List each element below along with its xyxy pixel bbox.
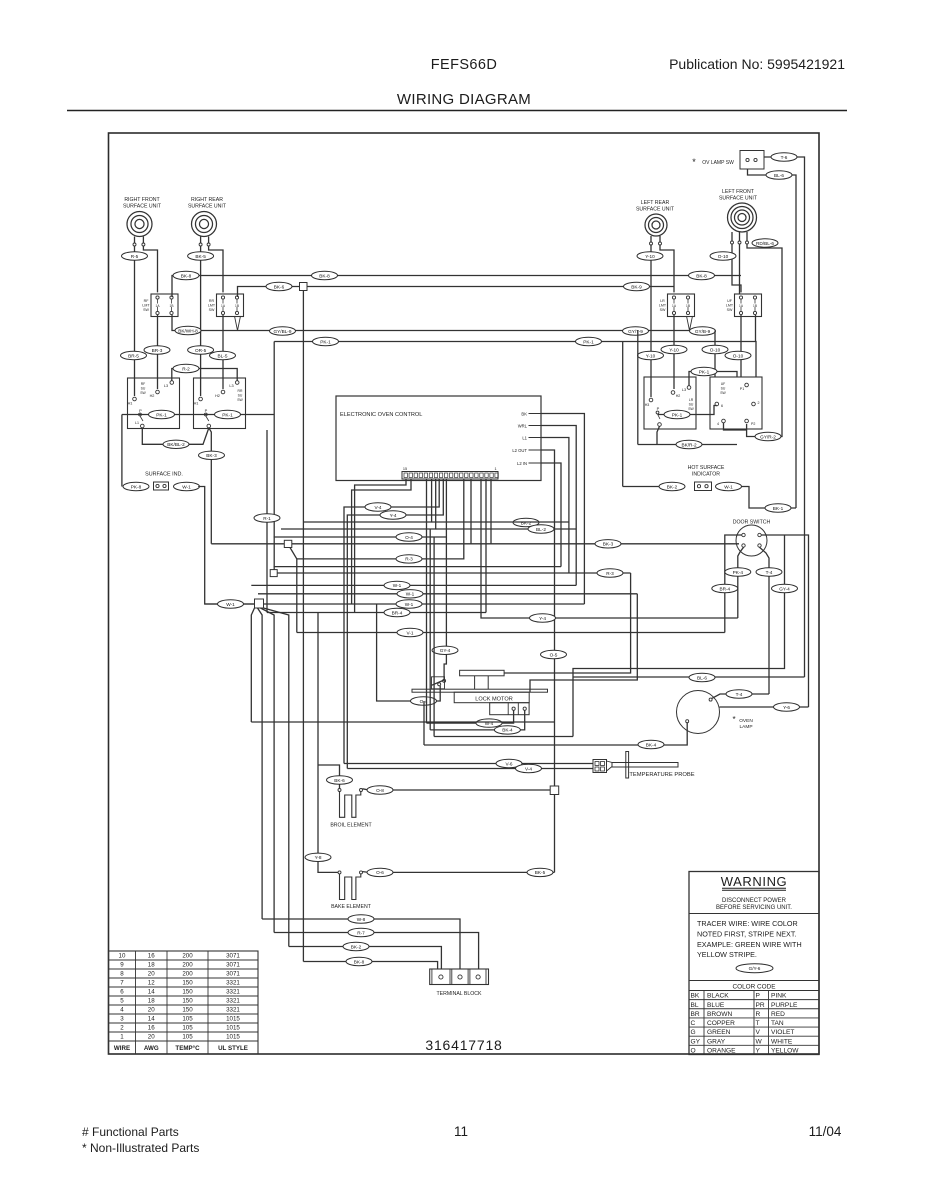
svg-text:VIOLET: VIOLET bbox=[771, 1029, 794, 1036]
svg-text:RR: RR bbox=[238, 389, 243, 393]
svg-text:R: R bbox=[756, 1011, 761, 1018]
svg-text:BEFORE SERVICING UNIT.: BEFORE SERVICING UNIT. bbox=[716, 905, 792, 911]
svg-text:PK-1: PK-1 bbox=[222, 412, 233, 417]
svg-text:RD/BL-6: RD/BL-6 bbox=[756, 241, 774, 246]
wire door switch right top bbox=[761, 535, 808, 707]
svg-text:R-3: R-3 bbox=[405, 557, 413, 562]
wire oven lamp to T-4 bbox=[712, 694, 769, 698]
wire bus PK-1 row bbox=[274, 342, 756, 378]
svg-text:1: 1 bbox=[120, 1034, 124, 1041]
svg-text:200: 200 bbox=[182, 962, 193, 969]
wire run to L2 IN vertical bbox=[274, 566, 562, 568]
svg-text:SURFACE IND.: SURFACE IND. bbox=[145, 472, 183, 478]
strip drop c bbox=[485, 479, 487, 613]
svg-text:8: 8 bbox=[120, 971, 124, 978]
svg-text:1015: 1015 bbox=[226, 1034, 240, 1041]
wire label BL-2 bbox=[528, 525, 554, 533]
svg-text:C: C bbox=[691, 1020, 696, 1027]
wire RF LMT 2A to H2 bbox=[157, 315, 159, 389]
svg-text:RIGHT REAR: RIGHT REAR bbox=[191, 197, 223, 203]
svg-text:BK/BL-2: BK/BL-2 bbox=[167, 442, 185, 447]
svg-text:R-7: R-7 bbox=[357, 930, 365, 935]
svg-text:P: P bbox=[205, 408, 208, 413]
svg-text:GY/BL-9: GY/BL-9 bbox=[274, 329, 292, 334]
wire right front coil left terminal to H1 bbox=[134, 246, 136, 396]
svg-text:COPPER: COPPER bbox=[707, 1020, 735, 1027]
wire HSI feed riser to PK bus bbox=[622, 342, 624, 487]
svg-text:*: * bbox=[732, 715, 735, 724]
junction diagonal to R-3 run bbox=[290, 548, 297, 633]
wire label GY/T-9 bbox=[623, 327, 649, 335]
svg-text:1015: 1015 bbox=[226, 1025, 240, 1032]
wire P row right switch bbox=[658, 406, 717, 415]
svg-text:BK-2: BK-2 bbox=[521, 520, 532, 525]
terminal block bbox=[430, 969, 489, 997]
svg-text:150: 150 bbox=[182, 989, 193, 996]
svg-text:BL: BL bbox=[691, 1002, 699, 1009]
svg-text:BR-4: BR-4 bbox=[392, 610, 403, 615]
wire label T-6 bbox=[771, 153, 797, 161]
wire label V-4 bbox=[516, 764, 542, 772]
wire GY-4 drop to lock motor connector bbox=[444, 537, 446, 680]
wire label PK-1 bbox=[576, 337, 602, 345]
wire label W-1 bbox=[174, 482, 200, 490]
svg-text:1A: 1A bbox=[739, 304, 744, 308]
wire LR LMT 2A to H2 bbox=[673, 315, 675, 389]
wire terminal run BK-2 bbox=[289, 947, 442, 970]
svg-text:UF: UF bbox=[727, 299, 733, 303]
wire probe V-4 lead bbox=[347, 768, 593, 770]
wire label O-6 bbox=[367, 868, 393, 876]
svg-text:COLOR CODE: COLOR CODE bbox=[733, 984, 776, 991]
wire L1 link RF to RR bbox=[142, 428, 209, 445]
svg-text:1: 1 bbox=[494, 467, 496, 471]
wire label BK-2 bbox=[513, 518, 539, 526]
svg-text:Y-4: Y-4 bbox=[539, 616, 546, 621]
svg-text:SURFACE UNIT: SURFACE UNIT bbox=[719, 196, 758, 202]
wire right front coil right terminal to RF LMT 1A bbox=[143, 246, 157, 292]
wire door switch right bottom bbox=[760, 547, 770, 694]
wire cap feed right a bbox=[504, 573, 630, 673]
svg-text:W-1: W-1 bbox=[393, 583, 402, 588]
svg-text:12: 12 bbox=[148, 980, 155, 987]
wire run BR-4 bbox=[267, 612, 486, 614]
svg-text:SW: SW bbox=[140, 391, 146, 395]
wire label T-4 bbox=[726, 690, 752, 698]
svg-text:W-1: W-1 bbox=[226, 602, 235, 607]
strip drop a bbox=[355, 479, 406, 613]
svg-text:P: P bbox=[756, 993, 761, 1000]
svg-text:BK-2: BK-2 bbox=[351, 944, 362, 949]
svg-text:Y: Y bbox=[756, 1047, 761, 1054]
wire label BK-5 bbox=[188, 252, 214, 260]
svg-text:WRL: WRL bbox=[518, 424, 528, 429]
wire label V-4 bbox=[365, 503, 391, 511]
svg-text:BK: BK bbox=[521, 412, 527, 417]
svg-text:SW: SW bbox=[143, 308, 149, 312]
wire BK-2 run bbox=[304, 479, 432, 522]
wire label BL-6 bbox=[689, 673, 715, 681]
svg-text:O-8: O-8 bbox=[376, 788, 384, 793]
right front coil terminals bbox=[133, 243, 136, 246]
wire bus BK-6 with junction connector bbox=[238, 287, 675, 298]
oven lamp switch OV LAMP SW bbox=[692, 151, 764, 170]
limit switch RF LMT SW bbox=[142, 294, 178, 317]
wire label V-1 bbox=[397, 628, 423, 636]
wire P bus right riser bbox=[273, 342, 275, 574]
lock motor switch contact bbox=[432, 677, 446, 689]
svg-text:O: O bbox=[691, 1047, 696, 1054]
surface switch UF SU SW bbox=[710, 377, 762, 429]
svg-text:UL STYLE: UL STYLE bbox=[218, 1045, 248, 1052]
svg-text:LOCK MOTOR: LOCK MOTOR bbox=[475, 697, 513, 703]
limit switch UF LMT SW bbox=[726, 294, 762, 317]
svg-text:BK-2: BK-2 bbox=[667, 484, 678, 489]
svg-text:1B: 1B bbox=[170, 304, 174, 308]
svg-text:ORANGE: ORANGE bbox=[707, 1047, 736, 1054]
wire terminal run BK-8 bbox=[303, 962, 437, 970]
svg-text:L3: L3 bbox=[682, 388, 686, 392]
strip drop b bbox=[352, 479, 411, 604]
wire label BL-6 bbox=[766, 171, 792, 179]
wire door switch left bottom bbox=[738, 547, 744, 618]
svg-text:W-8: W-8 bbox=[357, 917, 366, 922]
wire label GY/BL-9 bbox=[270, 327, 296, 335]
X junction node bbox=[251, 599, 288, 947]
svg-text:GY/R-2: GY/R-2 bbox=[760, 434, 776, 439]
svg-text:SU: SU bbox=[721, 387, 726, 391]
svg-text:3321: 3321 bbox=[226, 980, 240, 987]
svg-text:1B: 1B bbox=[686, 304, 690, 308]
wire terminal run R-7 bbox=[274, 933, 479, 970]
svg-text:1B: 1B bbox=[753, 304, 757, 308]
svg-text:ELECTRONIC OVEN CONTROL: ELECTRONIC OVEN CONTROL bbox=[340, 412, 422, 418]
bake element bbox=[331, 871, 372, 910]
svg-text:T-6: T-6 bbox=[781, 155, 788, 160]
wire label PK-1 bbox=[664, 410, 690, 418]
junction square L2OUT bbox=[550, 786, 559, 795]
svg-text:PK-1: PK-1 bbox=[156, 412, 167, 417]
svg-text:O-5: O-5 bbox=[550, 652, 558, 657]
svg-text:L1: L1 bbox=[135, 421, 139, 425]
electronic oven control box bbox=[336, 396, 541, 481]
svg-text:LMT: LMT bbox=[208, 304, 216, 308]
svg-text:18: 18 bbox=[148, 962, 155, 969]
svg-text:1B: 1B bbox=[235, 304, 239, 308]
wire label GY-4 bbox=[432, 646, 458, 654]
svg-text:316417718: 316417718 bbox=[425, 1037, 502, 1053]
wire label PK-1 bbox=[313, 337, 339, 345]
wire junction connector drop to terminal block bus bbox=[302, 291, 304, 962]
wire left front coil left terminal to UF LMT 1A bbox=[732, 244, 741, 292]
junction connector on BK bus bbox=[300, 283, 308, 291]
wire lock motor BK-4 lead bbox=[430, 710, 525, 730]
svg-text:L2 OUT: L2 OUT bbox=[512, 448, 527, 453]
svg-text:TEMP°C: TEMP°C bbox=[175, 1045, 200, 1052]
svg-text:PURPLE: PURPLE bbox=[771, 1002, 798, 1009]
RR SU SW terminals bbox=[194, 381, 244, 428]
svg-text:L1: L1 bbox=[522, 436, 527, 441]
svg-text:SW: SW bbox=[660, 308, 666, 312]
svg-text:BK-8: BK-8 bbox=[181, 273, 192, 278]
svg-text:EXAMPLE: GREEN WIRE WITH: EXAMPLE: GREEN WIRE WITH bbox=[697, 940, 802, 949]
svg-text:Publication No: 5995421921: Publication No: 5995421921 bbox=[669, 56, 845, 72]
wire label W-8 bbox=[348, 915, 374, 923]
wire label W-4 bbox=[476, 719, 502, 727]
contact squiggle LR LMT to bus bbox=[687, 316, 693, 331]
svg-text:WHITE: WHITE bbox=[771, 1038, 793, 1045]
svg-text:RF: RF bbox=[141, 382, 146, 386]
svg-text:GY/T-9: GY/T-9 bbox=[628, 329, 643, 334]
svg-text:WIRING DIAGRAM: WIRING DIAGRAM bbox=[397, 91, 531, 108]
svg-text:SW: SW bbox=[720, 391, 726, 395]
svg-text:*: * bbox=[692, 157, 696, 167]
surface switch LR SU SW bbox=[644, 377, 696, 429]
wire GY-4 drop from door bus bbox=[573, 535, 785, 737]
svg-text:SU: SU bbox=[689, 403, 694, 407]
svg-text:LR: LR bbox=[689, 398, 694, 402]
wire label BK-1 bbox=[765, 504, 791, 512]
wire LR switch lower drop bbox=[657, 426, 660, 444]
wire terminal run W-8 bbox=[262, 919, 460, 969]
svg-text:H2: H2 bbox=[215, 394, 220, 398]
svg-text:H1: H1 bbox=[194, 402, 199, 406]
svg-text:2: 2 bbox=[120, 1025, 124, 1032]
svg-text:SW: SW bbox=[727, 308, 733, 312]
svg-text:P2: P2 bbox=[751, 422, 755, 426]
svg-text:2: 2 bbox=[758, 401, 760, 405]
svg-text:BK-4: BK-4 bbox=[502, 728, 513, 733]
svg-text:TRACER WIRE: WIRE COLOR: TRACER WIRE: WIRE COLOR bbox=[697, 919, 798, 928]
svg-text:14: 14 bbox=[148, 1016, 155, 1023]
surface unit coil RIGHT FRONT SURFACE UNIT bbox=[123, 197, 162, 237]
svg-text:18: 18 bbox=[148, 998, 155, 1005]
svg-text:BK-9: BK-9 bbox=[631, 284, 642, 289]
svg-text:PINK: PINK bbox=[771, 993, 787, 1000]
svg-text:V-4: V-4 bbox=[374, 505, 381, 510]
svg-text:PR: PR bbox=[756, 1002, 765, 1009]
svg-text:V-4: V-4 bbox=[525, 766, 532, 771]
svg-text:5: 5 bbox=[120, 998, 124, 1005]
svg-text:TERMINAL BLOCK: TERMINAL BLOCK bbox=[436, 991, 482, 997]
svg-text:PK-1: PK-1 bbox=[583, 339, 594, 344]
wire T-6 horizontal to lamp area bbox=[573, 676, 805, 678]
svg-text:BK/R-2: BK/R-2 bbox=[681, 442, 697, 447]
vertical R-1 riser bbox=[266, 430, 268, 613]
wire EOC BK to vertical bbox=[541, 414, 584, 605]
svg-text:H1: H1 bbox=[128, 402, 133, 406]
wire EOC WRL to vertical bbox=[541, 426, 576, 586]
svg-text:GREEN: GREEN bbox=[707, 1029, 731, 1036]
wire label BK-8 bbox=[173, 271, 199, 279]
svg-text:Y-8: Y-8 bbox=[315, 855, 322, 860]
wire P bus left drop to surface indicator bbox=[121, 415, 123, 487]
svg-text:YELLOW: YELLOW bbox=[771, 1047, 799, 1054]
svg-text:BK/WH-8: BK/WH-8 bbox=[178, 328, 198, 333]
wire OV LAMP SW to right vertical T-6 bbox=[764, 157, 805, 677]
broil element bbox=[330, 789, 372, 829]
wire label PK-1 bbox=[691, 367, 717, 375]
svg-text:GRAY: GRAY bbox=[707, 1038, 726, 1045]
wire label O-4 bbox=[396, 533, 422, 541]
wire right rear coil left terminal to H1 bbox=[200, 246, 202, 396]
svg-text:O-4: O-4 bbox=[405, 535, 413, 540]
wire HSI to BL-6 vertical bbox=[742, 487, 797, 509]
svg-text:W-1: W-1 bbox=[406, 592, 415, 597]
svg-text:W: W bbox=[756, 1038, 763, 1045]
wire label GY-4 bbox=[772, 584, 798, 592]
svg-text:PK-4: PK-4 bbox=[733, 570, 744, 575]
wire OV LAMP SW bottom BL-6 bbox=[748, 169, 797, 508]
svg-text:NOTED FIRST, STRIPE NEXT.: NOTED FIRST, STRIPE NEXT. bbox=[697, 930, 796, 939]
wire label W-1 bbox=[218, 600, 244, 608]
wire label Y-6 bbox=[774, 703, 800, 711]
limit switch RR LMT SW bbox=[208, 294, 244, 317]
wire label BK/WH-8 bbox=[175, 326, 201, 334]
svg-text:3321: 3321 bbox=[226, 1007, 240, 1014]
svg-text:R-3: R-3 bbox=[606, 571, 614, 576]
wire BK-3 long run to door switch bbox=[211, 543, 739, 545]
svg-text:AWG: AWG bbox=[144, 1045, 159, 1052]
wire bus drop to BK/R-2 bbox=[637, 331, 639, 445]
svg-text:O-10: O-10 bbox=[733, 353, 744, 358]
wire label RD/BL-6 bbox=[752, 239, 778, 247]
svg-text:1A: 1A bbox=[221, 304, 226, 308]
wire left rear coil left terminal to H3 bbox=[650, 245, 652, 397]
svg-text:GY/B-9: GY/B-9 bbox=[695, 329, 711, 334]
wire UF LMT 2B to PK bus bbox=[755, 315, 757, 342]
wire label R-2 bbox=[173, 364, 199, 372]
svg-text:G/Y-6: G/Y-6 bbox=[749, 966, 761, 971]
wire Y-4 run to door switch drop bbox=[481, 479, 738, 618]
svg-text:UF: UF bbox=[721, 382, 726, 386]
svg-text:RF: RF bbox=[144, 299, 150, 303]
wire label OR-5 bbox=[188, 346, 214, 354]
wire EOC L2 IN to vertical bbox=[541, 463, 561, 567]
wire label Y-8 bbox=[305, 853, 331, 861]
lock motor assembly bbox=[412, 670, 548, 714]
wire run W-1 X node bbox=[205, 603, 585, 605]
wire bake right lead O-6 bbox=[363, 871, 555, 874]
wire label BK-4 bbox=[638, 740, 664, 748]
svg-text:BROWN: BROWN bbox=[707, 1011, 733, 1018]
wire label BK/R-2 bbox=[676, 440, 702, 448]
svg-text:150: 150 bbox=[182, 998, 193, 1005]
surface indicator SURFACE IND. bbox=[145, 472, 183, 491]
wire R-3 run bbox=[297, 479, 464, 559]
contact squiggle RR LMT to bus bbox=[235, 316, 241, 331]
svg-text:WARNING: WARNING bbox=[721, 874, 788, 889]
title rule bbox=[67, 110, 847, 112]
svg-text:BK-6: BK-6 bbox=[274, 284, 285, 289]
svg-text:L3: L3 bbox=[164, 384, 168, 388]
svg-text:O-6: O-6 bbox=[376, 870, 384, 875]
wire run W-1 a bbox=[251, 584, 576, 586]
svg-text:GY: GY bbox=[691, 1038, 701, 1045]
svg-text:BK-1: BK-1 bbox=[773, 506, 784, 511]
svg-text:# Functional Parts: # Functional Parts bbox=[82, 1125, 179, 1139]
wire broil left lead BK-6 bbox=[318, 765, 340, 788]
svg-text:OV LAMP SW: OV LAMP SW bbox=[702, 160, 734, 166]
svg-text:BK-3: BK-3 bbox=[206, 453, 217, 458]
svg-text:BROIL ELEMENT: BROIL ELEMENT bbox=[330, 823, 372, 829]
wire bake left lead Y-8 bbox=[318, 613, 338, 873]
wire O-4 run bbox=[274, 479, 447, 537]
temperature probe bbox=[593, 752, 695, 779]
svg-text:Y-10: Y-10 bbox=[669, 347, 679, 352]
svg-text:LMT: LMT bbox=[659, 304, 667, 308]
wire lock motor O-4 lead bbox=[377, 604, 441, 701]
wire label BK-9 bbox=[624, 282, 650, 290]
wire label G/Y-6 bbox=[736, 964, 773, 973]
wire BK/R-2 run bbox=[638, 444, 737, 446]
svg-text:P: P bbox=[139, 408, 142, 413]
wire EOC L2 OUT to vertical bbox=[541, 450, 555, 872]
svg-text:BK-5: BK-5 bbox=[535, 870, 546, 875]
wire label BK-3 bbox=[199, 451, 225, 459]
wire label R-1 bbox=[254, 514, 280, 522]
wire label GY/R-2 bbox=[755, 432, 781, 440]
color code table bbox=[689, 981, 819, 1055]
svg-text:20: 20 bbox=[148, 1007, 155, 1014]
wire label BK-2 bbox=[343, 942, 369, 950]
svg-text:TEMPERATURE PROBE: TEMPERATURE PROBE bbox=[629, 772, 694, 778]
svg-text:105: 105 bbox=[182, 1016, 193, 1023]
svg-text:SW: SW bbox=[237, 398, 243, 402]
svg-text:150: 150 bbox=[182, 980, 193, 987]
svg-text:BLACK: BLACK bbox=[707, 993, 729, 1000]
svg-text:PK-8: PK-8 bbox=[131, 484, 142, 489]
svg-text:LAMP: LAMP bbox=[739, 724, 752, 730]
wire oven lamp BK-4 lead bbox=[424, 723, 687, 745]
svg-text:Y-6: Y-6 bbox=[783, 705, 790, 710]
wire gauge table bbox=[109, 951, 259, 1054]
wire cap feed right b bbox=[530, 594, 637, 692]
EOC connector strip bbox=[402, 467, 498, 479]
svg-text:Y-4: Y-4 bbox=[390, 513, 397, 518]
svg-text:H2: H2 bbox=[150, 394, 155, 398]
svg-text:* Non-Illustrated Parts: * Non-Illustrated Parts bbox=[82, 1141, 199, 1155]
svg-text:BK-3: BK-3 bbox=[603, 542, 614, 547]
svg-text:1015: 1015 bbox=[226, 1016, 240, 1023]
oven lamp bbox=[677, 691, 754, 734]
svg-text:WIRE: WIRE bbox=[114, 1045, 130, 1052]
wire label PK-1 bbox=[149, 410, 175, 418]
wire label PK-4 bbox=[725, 568, 751, 576]
wire label O-10 bbox=[725, 351, 751, 359]
svg-text:16: 16 bbox=[148, 953, 155, 960]
surface switch RF SU SW bbox=[128, 378, 180, 429]
wire oven lamp right Y-6 bbox=[720, 706, 809, 708]
left front coil terminals bbox=[731, 241, 734, 244]
wire label BK-6 bbox=[327, 776, 353, 784]
svg-text:YELLOW STRIPE.: YELLOW STRIPE. bbox=[697, 950, 757, 959]
svg-text:150: 150 bbox=[182, 1007, 193, 1014]
svg-text:LMT: LMT bbox=[726, 304, 734, 308]
strip drop d bbox=[490, 479, 492, 544]
svg-text:T: T bbox=[756, 1020, 760, 1027]
surface unit coil LEFT REAR SURFACE UNIT bbox=[636, 200, 675, 236]
svg-text:TAN: TAN bbox=[771, 1020, 784, 1027]
wire label BK-5 bbox=[527, 868, 553, 876]
wire label W-1 bbox=[396, 600, 422, 608]
wire label BR-4 bbox=[384, 608, 410, 616]
svg-text:P1: P1 bbox=[740, 387, 744, 391]
svg-text:6: 6 bbox=[721, 404, 723, 408]
svg-text:O-10: O-10 bbox=[718, 254, 729, 259]
svg-text:SURFACE UNIT: SURFACE UNIT bbox=[636, 207, 675, 213]
svg-text:SW: SW bbox=[688, 407, 694, 411]
